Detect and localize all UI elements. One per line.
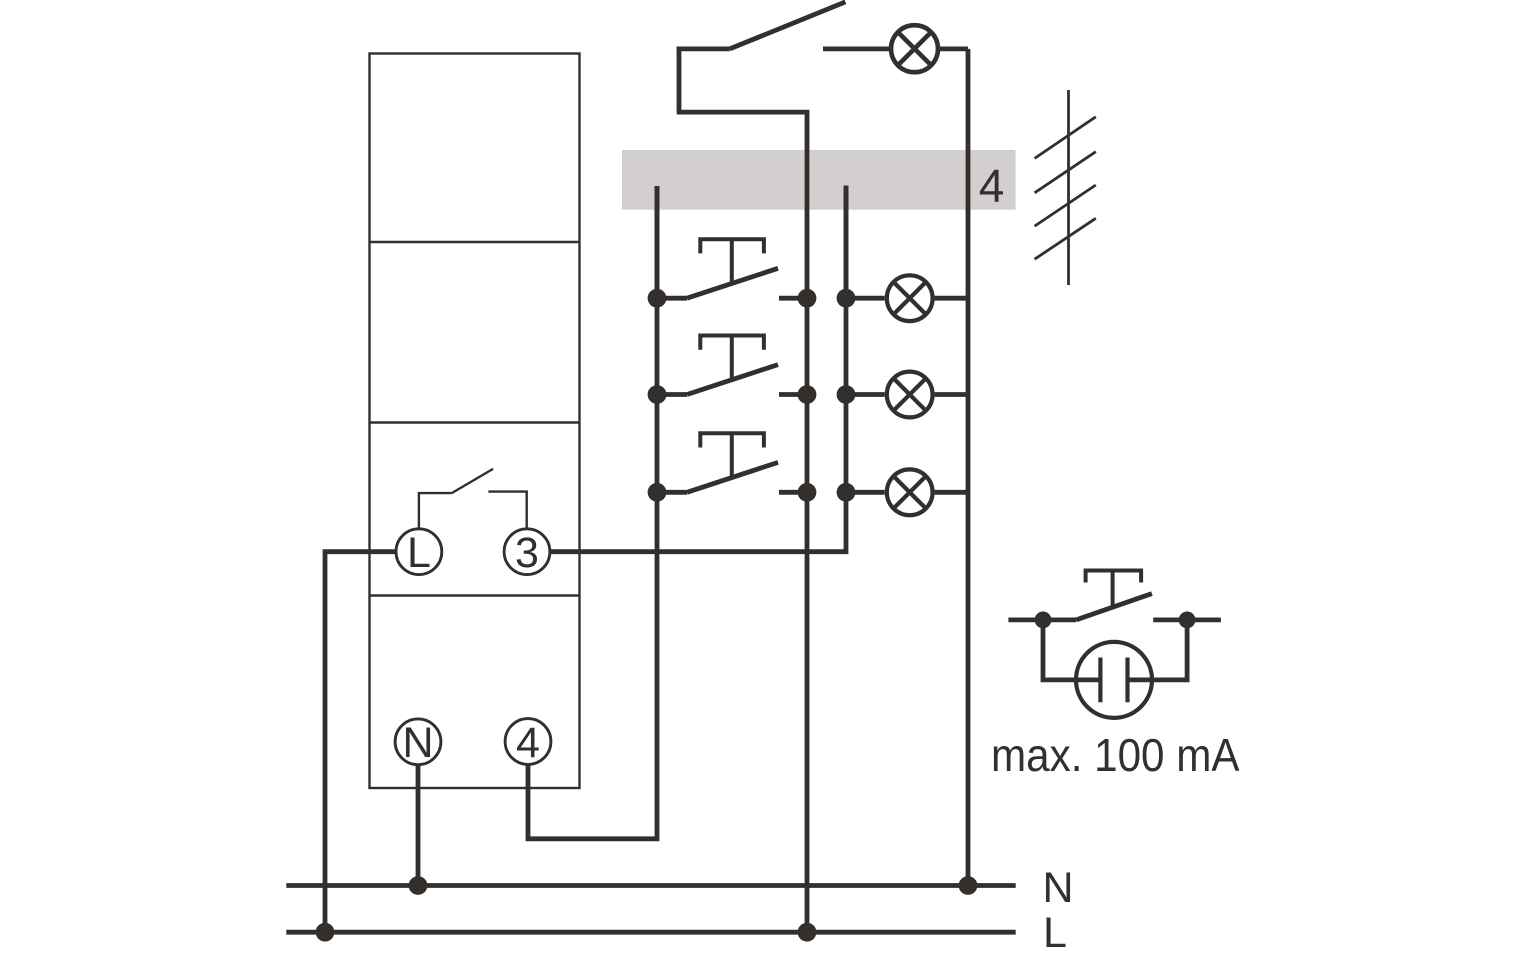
svg-text:N: N [1043,864,1074,912]
svg-text:L: L [1043,909,1067,957]
svg-text:4: 4 [979,160,1005,212]
svg-text:max. 100 mA: max. 100 mA [991,729,1240,781]
svg-text:3: 3 [515,529,539,577]
svg-text:N: N [402,719,433,767]
svg-text:4: 4 [516,719,540,767]
svg-text:L: L [407,529,431,577]
